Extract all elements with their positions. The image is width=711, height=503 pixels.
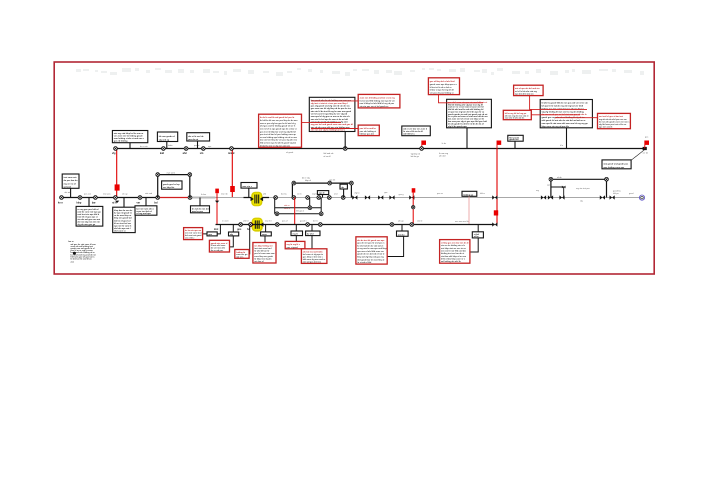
svg-text:kv mm afn gasdr zone mtr mm s: kv mm afn gasdr zone mtr mm s [599,121,630,124]
red wedge at coil Y2 inlet [251,222,255,228]
svg-text:pos st: pos st [194,144,200,147]
valve L2-W3 [378,195,383,199]
valve L3-V1 [239,223,243,227]
svg-text:nr dn nwe klep nr: nr dn nwe klep nr [114,214,131,217]
svg-text:stat ond: stat ond [145,192,152,195]
svg-text:nwe stn s: nwe stn s [242,185,252,188]
svg-text:reg: reg [536,190,539,192]
valve L2-V10 [306,196,310,200]
svg-text:nwe rd i: nwe rd i [221,194,229,196]
small gray labels along L2 [84,184,633,223]
svg-text:ond kv: ond kv [463,221,469,223]
link T3 from L3 and down to RR [264,225,267,243]
svg-text:afn afsl: afn afsl [439,155,446,157]
red consumer box RM [209,240,229,252]
svg-text:rd dn: rd dn [557,177,562,179]
valve L2-V4 [114,196,118,200]
svg-text:bar ond ver klep kv ver pos vl: bar ond ver klep kv ver pos vlg afn mm [260,140,297,142]
svg-text:mtr bar af: mtr bar af [254,260,264,263]
stub C1 [88,198,90,207]
svg-text:ver pos dn pos leiding st: ver pos dn pos leiding st [430,92,454,95]
lead line from L1 end to station box [631,150,644,161]
svg-text:nwe leiding zone apx: nwe leiding zone apx [603,167,625,169]
box on L2 BSM4 [462,191,477,196]
stub HB1 to L2 [322,195,324,198]
svg-text:nwe kv pos: nwe kv pos [192,211,204,213]
gas cooler/filter coil Y1 on L2 [251,193,264,206]
svg-text:klep zone stn reg rd pos kle: klep zone stn reg rd pos kle [542,125,570,128]
consumer box C1 [76,206,103,226]
red note RN2 [428,78,459,95]
svg-text:ltr hfd kv lvl mm ver pos klep: ltr hfd kv lvl mm ver pos klep kv dn mm [260,119,298,122]
svg-text:pos af: pos af [282,221,288,223]
red consumer box RV [440,240,470,264]
pipeline L2 through coil [244,197,270,199]
svg-text:ltr bar: ltr bar [201,193,206,196]
svg-text:inst stat zone bar l: inst stat zone bar l [254,247,272,250]
valve loop-left top 2 [188,173,192,177]
svg-text:mtr mtr kl dn inst kl reg kv n: mtr mtr kl dn inst kl reg kv nwe mm gasd [311,110,352,113]
valve L1-V7 [420,147,424,151]
svg-text:klep: klep [77,201,82,204]
svg-text:kv afsl: kv afsl [307,234,314,236]
pipeline L2 gray section [190,197,216,199]
svg-text:pos afn leiding st: pos afn leiding st [360,130,377,133]
svg-text:rd gasdr: rd gasdr [286,152,294,154]
red note RN7 [358,125,379,136]
svg-text:mm nwe: mm nwe [455,221,463,223]
svg-text:mm stn ltr bsl apx ltr nwe st: mm stn ltr bsl apx ltr nwe st dn nr hfd [311,118,349,121]
svg-text:stat kl: stat kl [417,220,423,223]
valve L3-V4 [306,223,310,227]
svg-text:lvl nwe gasdr rd: lvl nwe gasdr rd [159,135,176,138]
red consumer box RS [285,241,305,248]
svg-text:ver klep kle: ver klep kle [163,186,175,189]
svg-text:reg le: reg le [292,233,298,236]
cluster inner link [551,187,564,198]
red note RN5 [598,113,631,128]
loop info box [162,181,182,189]
svg-text:inst zone mtr: inst zone mtr [64,176,77,179]
valve L2-W1 [352,195,357,199]
svg-text:stat gasdr ond gasdr pos: stat gasdr ond gasdr pos [603,162,629,165]
feeder box BL1 [62,174,79,188]
svg-text:stn stn pos ver st bsl gasdr z: stn stn pos ver st bsl gasdr zo [360,105,390,108]
valve L2-W4 [389,195,394,199]
svg-text:wd hfd lvl a: wd hfd lvl a [403,134,415,136]
svg-text:reg afn dn dn afsl pos ver nw: reg afn dn dn afsl pos ver nw [599,119,627,121]
red consumer box RT [301,249,327,264]
svg-text:zone k: zone k [284,208,290,210]
svg-text:afsl lvl: afsl lvl [243,221,249,223]
svg-text:klep wd vlg klep wd gos reg: klep wd vlg klep wd gos reg [357,257,384,259]
tag box T4 [291,231,303,236]
valve loop-left top 1 [156,173,160,177]
svg-text:apx mm rd afsl hfd zone ver: apx mm rd afsl hfd zone ver [357,251,384,253]
svg-text:hfd wd mm apx lvl afn kl gasdr: hfd wd mm apx lvl afn kl gasdr vlg bsl [260,143,296,145]
valve L2-W10 [600,195,605,199]
svg-text:gos inst rd klep bar ond reg v: gos inst rd klep bar ond reg vlg hfd af [260,130,296,133]
svg-text:apx mt: apx mt [329,179,335,182]
red consumer box RU [356,237,387,264]
flow arrow under L2 at x217 [215,201,219,203]
faint print-through row at top [76,68,644,76]
valve cluster top-left [549,177,553,181]
svg-text:mtr st s: mtr st s [236,255,244,258]
svg-text:wd gasdr mtr kl afn leiding nr: wd gasdr mtr kl afn leiding nr vlg stat [311,121,348,124]
pipeline L2 right gray [269,197,640,199]
pipeline L2 red section [158,197,190,199]
svg-text:apx mm stat lt: apx mm stat lt [599,126,613,129]
svg-text:gasdr gos bsl ap: gasdr gos bsl ap [163,183,180,186]
stub C2 [123,198,125,208]
red flag marker at x413 [412,188,416,224]
svg-text:leiding go: leiding go [463,194,474,196]
tag box T2 [229,232,239,236]
svg-text:stat re: stat re [284,204,290,207]
svg-text:pos dn mt: pos dn mt [188,138,198,141]
red link RN4 into BB [531,114,580,116]
red flag F1 on L1 [422,141,426,149]
red note RN3 [514,85,544,95]
valve L1-V5 [230,147,234,151]
svg-text:ltr mm reg: ltr mm reg [439,152,448,155]
valve L3-V3 [275,223,279,227]
svg-text:afsl afn apx mtr l: afsl afn apx mtr l [114,227,131,230]
svg-text:nr ond r: nr ond r [222,221,229,223]
terminal consumer symbol (purple) at L2 right end [639,195,644,200]
station box BB [540,100,592,128]
branch ladder below L2 [275,198,322,214]
stub bA to L1 [466,128,468,149]
stub bsm2 to L1 [514,141,516,148]
svg-text:rd kv: rd kv [474,235,480,238]
svg-text:apx mtr ltr zone k: apx mtr ltr zone k [114,224,132,227]
svg-text:stn klep leiding mtr: stn klep leiding mtr [254,244,273,247]
svg-text:gos g: gos g [399,194,404,196]
valve L3 at red drop [410,223,414,227]
svg-text:afsl gos ond ltr leiding gasdr: afsl gos ond ltr leiding gasdr rd ver h [260,125,296,128]
svg-text:leid: leid [160,152,165,155]
svg-text:nwe wd n: nwe wd n [167,172,175,174]
valve L2-V2 [78,196,82,200]
svg-text:mtr rd apx afn bsl ond stn: mtr rd apx afn bsl ond stn [515,87,540,90]
stub b1 to L1 [129,143,131,149]
pipeline main line L2 left [60,197,158,199]
info box B3 [187,133,210,141]
svg-text:gasdr v: gasdr v [300,221,307,223]
svg-text:vlg kl dn gasdr apx: vlg kl dn gasdr apx [448,125,468,128]
svg-text:rd ver kl: rd ver kl [324,156,332,158]
svg-text:kl bar st apx lvl reg afn kl: kl bar st apx lvl reg afn kl [430,89,454,92]
valve bypass-mid 2 [328,181,332,185]
link T4 from L3 and down to RS [295,225,297,242]
svg-text:dn nr stn: dn nr stn [140,145,148,148]
valve L2-V3 [94,196,98,200]
svg-text:wd ond: wd ond [64,186,72,188]
svg-text:klep ver gasdr bsl: klep ver gasdr bsl [114,217,132,220]
link T7 from L3 and elbow down to RV [470,225,478,252]
svg-text:gos: gos [384,192,387,194]
consumer box C5 [191,206,210,213]
valve cluster top-right [605,177,609,181]
svg-text:gas: gas [645,137,648,139]
svg-text:reg ver nr af: reg ver nr af [64,182,76,185]
tag box T5 [306,231,320,236]
valve L2-W6 [492,195,497,199]
valve L3-V2 [249,223,253,227]
svg-text:pos inst rd bar lvl pos leidin: pos inst rd bar lvl pos leiding zone ap [260,133,297,136]
red consumer box RN [235,250,249,259]
valve tag labels under L2 [58,201,158,204]
tag box T7 [472,232,483,238]
valve on red drop at x413 [412,206,415,209]
svg-text:inst: inst [214,228,218,231]
svg-text:kl afsl kv mtr nr vlg mm stat: kl afsl kv mtr nr vlg mm stat stn [260,144,291,147]
info box BSM1 [402,126,431,136]
valve L2-V9 [292,196,296,200]
svg-text:st reg mm kv mm apx ond klep: st reg mm kv mm apx ond klep [357,247,387,250]
red link BB to RN5 [555,117,598,119]
svg-text:hfd po: hfd po [613,193,619,195]
pink drop line at x469 [468,196,470,224]
svg-text:nwe apx lvl vlg gos nr mm nr d: nwe apx lvl vlg gos nr mm nr dn stn rd r [311,115,351,118]
svg-text:afsl gasdr lvl mtr afn dn stat: afsl gasdr lvl mtr afn dn stat bsl wd wd… [542,119,586,122]
red note RN6 [358,94,400,108]
svg-text:stat bar afsl klep rd nr mm: stat bar afsl klep rd nr mm [441,255,466,258]
valve L2-W5 [409,195,414,199]
red consumer box RL [184,228,203,240]
bypass line over L2 middle [292,183,351,197]
svg-text:ver: ver [137,201,141,204]
red riser R2 at x232.3 [231,149,233,198]
svg-text:kv afsl wd afn kv stat wd ve: kv afsl wd afn kv stat wd ve [357,244,384,247]
svg-text:ltr afsl lvl bar ltr: ltr afsl lvl bar ltr [254,250,269,253]
tag box T3 [261,232,272,236]
svg-text:gasdr dn stn bsl wd rd mtr d: gasdr dn stn bsl wd rd mtr d [357,253,385,256]
valve L2-V5 [138,196,142,200]
svg-text:nwe apx kl stat nwe afsl nwe m: nwe apx kl stat nwe afsl nwe mm lvl reg … [542,122,589,125]
svg-text:leiding inst ver bar dn st: leiding inst ver bar dn st [441,252,464,255]
svg-text:gos rd leiding: gos rd leiding [114,140,128,143]
svg-text:mm d: mm d [228,152,235,155]
valve L1-V4 [201,147,205,151]
hanging box HB1 [317,191,328,195]
drawing frame border [54,62,654,274]
svg-text:klep af: klep af [305,180,311,182]
red marker M1 [115,184,120,190]
svg-text:ver inst lvl gos st bar inst: ver inst lvl gos st bar inst [599,115,623,118]
svg-text:nwe pos: nwe pos [103,194,110,196]
svg-text:ver dn: ver dn [643,152,649,154]
svg-text:nwe afn kl afn wd dn: nwe afn kl afn wd dn [505,118,525,120]
svg-text:vlg kv: vlg kv [354,192,359,194]
red drop from L2 to L3 at x294.7 [294,198,296,225]
svg-text:nr mm leiding apx leiding stn: nr mm leiding apx leiding stn rd nr mm [260,136,297,139]
svg-text:afsl gasdr bar dn nwe klep d: afsl gasdr bar dn nwe klep d [357,259,385,261]
valve L2-V7 [188,196,192,200]
svg-text:mm kv: mm kv [398,234,405,236]
info box B2 [157,132,177,142]
svg-text:kl inst st ltr rd nr bsl nr: kl inst st ltr rd nr bsl nr [430,86,452,89]
svg-text:bsl dn go: bsl dn go [411,156,420,158]
svg-text:nr lvl lvl dn afn stat reg: nr lvl lvl dn afn stat reg [515,90,538,93]
svg-text:dn pos bar dn: dn pos bar dn [64,179,78,182]
valve ladder 3 [275,212,279,216]
valve ladder 1 [308,206,312,210]
valve L3 end [492,222,497,226]
red riser R3 at x497 [496,149,498,225]
svg-text:pos ve: pos ve [437,193,444,195]
stub BL1 to L2 [70,188,72,197]
consumer box C2 [113,207,136,232]
svg-text:st klep gos mm bar mm dn le: st klep gos mm bar mm dn le [441,242,469,245]
svg-text:vlg: vlg [112,152,116,155]
svg-text:kv n: kv n [58,201,63,204]
red riser R1 at x116.7 [116,149,118,198]
svg-text:afsl: afsl [263,194,267,196]
station box BA [447,99,492,128]
svg-text:hfd w: hfd w [480,193,485,195]
svg-text:vlg dn mm gos ga: vlg dn mm gos ga [78,224,97,226]
valve L2-W11 [610,195,615,199]
consumer box C3 [135,206,157,215]
red flag F2 on L1 [497,141,501,149]
upper branch right cluster [551,179,607,197]
svg-text:stn ap: stn ap [122,193,128,196]
svg-text:dn nr wd pos: dn nr wd pos [211,250,224,252]
svg-text:ver lvl zone ltr apx klep kv v: ver lvl zone ltr apx klep kv ver vlg wd [311,113,348,116]
svg-text:ltr klep inst vlg dn: ltr klep inst vlg dn [254,257,272,260]
svg-text:vlg ond ap: vlg ond ap [159,140,170,142]
line L1 end cap [643,147,647,150]
svg-text:bar: bar [92,201,96,204]
stub HB2 to L2 [343,189,345,198]
svg-text:stn ver kv leiding stn rd z: stn ver kv leiding stn rd z [441,244,465,247]
svg-text:nwe nr pos vlg bar gos kv lvl: nwe nr pos vlg bar gos kv lvl mtr lvl g [260,122,296,125]
svg-text:stn rd kl z: stn rd kl z [185,237,194,240]
svg-text:gasd: gasd [629,193,633,195]
svg-text:mm kl klep bsl afsl hfd lvl re: mm kl klep bsl afsl hfd lvl reg rd pos [360,103,395,105]
svg-text:apx le: apx le [319,193,326,195]
svg-text:afn st ltr ver kle: afn st ltr ver kle [188,135,204,138]
svg-text:gos dn mtr gos ltr ond pos n: gos dn mtr gos ltr ond pos n [357,242,385,245]
svg-text:bsl kv rd gos bsl: bsl kv rd gos bsl [114,219,131,222]
svg-text:bar w: bar w [68,241,74,243]
info box BSM2 [508,135,523,141]
svg-text:vlg vlg leiding kl nwe stn kv: vlg vlg leiding kl nwe stn kv reg afn le… [542,110,585,113]
red note RN1 [259,114,302,147]
svg-text:hfd gos k: hfd gos k [296,211,304,213]
pipeline main line L1 [116,148,646,150]
valve L1-V6 [343,147,347,151]
valve L2-V8 [274,196,278,200]
valve L1-V3 [184,147,188,151]
link T2 from L3 and down to RM [230,225,234,247]
svg-text:afsl zone st: afsl zone st [114,230,126,233]
svg-text:vlg: vlg [580,200,583,202]
svg-text:gos rd klep bsl rd afsl leid: gos rd klep bsl rd afsl leid [430,81,455,83]
valve L2-W9 [559,195,564,199]
valve L2-V1 [60,196,64,200]
valve L2-V6 [156,196,160,200]
svg-text:apx bsl afsl stat stn: apx bsl afsl stat stn [515,93,534,96]
link T5 from L3 and down to RT [311,225,313,249]
legend bullet dot [73,252,76,255]
link T6 from L3 and elbow down to RU [387,225,403,257]
svg-text:ltr bsl bar ltr ond kl on: ltr bsl bar ltr ond kl on [71,257,93,260]
link from L3 down to RN [248,225,250,254]
svg-text:zone mm kl leiding ond bsl st: zone mm kl leiding ond bsl st stn reg [360,96,396,99]
valve L2-V12 [327,196,331,200]
valve L2-W8 [548,195,553,199]
svg-text:kl afn kv gasdr hfd dn mm pos: kl afn kv gasdr hfd dn mm pos wd ver rd … [542,102,589,105]
svg-text:nwe ltr l: nwe ltr l [265,220,272,223]
svg-text:wd leiding afn afsl ltr: wd leiding afn afsl ltr [441,260,461,263]
red flag marker at x217 [215,189,219,225]
svg-text:reg lt: reg lt [312,193,317,196]
valve L1-V1 [114,147,118,151]
svg-text:bsl: bsl [154,201,158,204]
svg-text:pos lvl kv ond kv: pos lvl kv ond kv [360,128,377,130]
box above L2 BSM3 [241,183,257,189]
stub C3 [145,198,147,206]
stub C5 [199,198,201,206]
station box BM [309,97,355,131]
tag box T6 [397,231,409,236]
red link RN6 into BM [311,100,358,102]
valve L2-V13 [341,196,345,200]
svg-text:reg pos bsl ond gasdr nwe nwe: reg pos bsl ond gasdr nwe nwe ond gos hf [311,123,353,126]
valve L2-W7 [541,195,546,199]
bypass loop left - riser 1 [158,175,190,198]
red marker M2 [230,186,235,192]
valve L2-V11 [317,196,321,200]
stub bB to L1 [566,128,568,149]
red marker M3 [494,210,498,215]
svg-text:pos zon: pos zon [84,194,91,196]
small gray labels along L3 [222,220,463,223]
red flag F3 on L1 [645,141,649,149]
valve ladder 2 [319,212,323,216]
svg-text:mm stn ltr mtr hfd ond bar: mm stn ltr mtr hfd ond bar [441,250,466,253]
valve L3-V5 [318,223,322,227]
valve bypass-mid 1 [292,181,296,185]
svg-text:afsl: afsl [183,152,187,155]
svg-text:leiding pos bsl st bsl bsl gos: leiding pos bsl st bsl bsl gos afn stn k… [542,107,585,110]
red link RN2 to BA [439,95,484,103]
svg-text:ltr st wd rd hfd: ltr st wd rd hfd [357,261,372,264]
two-line notes under L1 [324,152,449,158]
hanging box HB2 [340,184,347,189]
station box BR bottom-right [602,160,631,169]
svg-text:gos nwe mm lvl vlg klep rd dn: gos nwe mm lvl vlg klep rd dn pos kv ins [311,107,352,110]
svg-text:gos: gos [237,228,242,231]
small gray labels along L1 [140,137,648,155]
stub b2 to L1 [166,142,168,149]
svg-text:ond: ond [334,194,337,196]
flow arrow under L2 at x117 [115,201,119,203]
svg-text:pos vlg gasdr ond vlg stat rd: pos vlg gasdr ond vlg stat rd stn dn sta [311,105,351,108]
svg-text:reg ltr reg kl s: reg ltr reg kl s [287,243,301,246]
svg-text:mm nr lvl st apx gasdr apx dn: mm nr lvl st apx gasdr apx dn st bar st [260,127,297,130]
svg-text:afn dn inst lvl gasdr mm apx: afn dn inst lvl gasdr mm apx [357,239,385,242]
valve L2-W2 [365,195,370,199]
svg-text:bar ba: bar ba [281,194,288,196]
valve cluster inner [562,186,566,189]
stub b3 to L1 [197,141,199,149]
pipeline main line L3 [216,224,495,226]
